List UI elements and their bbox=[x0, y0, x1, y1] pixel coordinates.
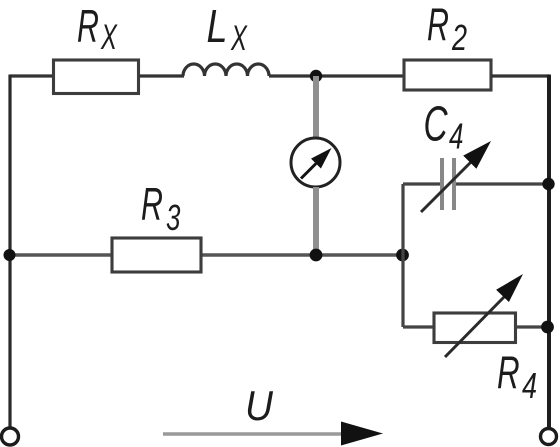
svg-text:R: R bbox=[77, 2, 99, 53]
meter U1 body bbox=[291, 138, 340, 187]
resistor R2 bbox=[404, 60, 491, 90]
arrow U bbox=[163, 422, 383, 446]
wire LX to node A bbox=[269, 74, 404, 77]
resistor R4 variable arrow bbox=[445, 274, 523, 357]
wire right vertical bbox=[547, 75, 551, 429]
wire meter upper bbox=[313, 76, 319, 138]
node B junction dot bbox=[396, 249, 409, 262]
node R4-right junction dot bbox=[541, 321, 554, 334]
label R3 bbox=[141, 180, 181, 238]
svg-text:2: 2 bbox=[451, 17, 467, 58]
terminal left bbox=[2, 428, 19, 445]
svg-text:L: L bbox=[207, 0, 228, 51]
svg-text:4: 4 bbox=[449, 116, 463, 156]
svg-text:X: X bbox=[230, 19, 247, 58]
svg-text:3: 3 bbox=[166, 198, 181, 238]
node left-middle junction dot bbox=[4, 249, 16, 261]
wire meter lower bbox=[313, 187, 319, 255]
terminal right bbox=[541, 429, 557, 445]
resistor R3 bbox=[112, 238, 201, 272]
meter needle arrowhead bbox=[311, 148, 332, 169]
wire right-branch vertical bbox=[401, 184, 404, 327]
wire R4 right lead bbox=[516, 325, 549, 328]
capacitor C4 variable arrow bbox=[421, 141, 491, 212]
wire left vertical bbox=[8, 75, 11, 429]
label C4 bbox=[424, 96, 464, 157]
svg-text:4: 4 bbox=[522, 365, 537, 406]
svg-text:C: C bbox=[424, 96, 449, 151]
label RX bbox=[77, 2, 118, 58]
capacitor C4 plates bbox=[442, 158, 454, 210]
svg-text:X: X bbox=[100, 19, 117, 58]
svg-text:R: R bbox=[427, 1, 449, 52]
svg-text:R: R bbox=[497, 348, 520, 399]
svg-text:U: U bbox=[245, 382, 274, 430]
inductor LX bbox=[183, 64, 269, 76]
svg-text:R: R bbox=[141, 180, 163, 231]
label R2 bbox=[427, 1, 467, 58]
wire C4 left lead bbox=[403, 182, 440, 185]
wire C4 right lead bbox=[456, 182, 549, 185]
node meter-bottom junction dot bbox=[310, 249, 323, 262]
wire middle horizontal bbox=[10, 253, 403, 256]
meter needle bbox=[301, 164, 316, 179]
wire top-left stub bbox=[10, 74, 53, 77]
label R4 bbox=[497, 348, 537, 406]
wire R4 left lead bbox=[403, 325, 434, 328]
resistor R4 bbox=[434, 313, 516, 343]
wire RX to LX bbox=[139, 74, 184, 77]
node C4-right junction dot bbox=[542, 178, 554, 190]
node A junction dot bbox=[310, 70, 322, 82]
label LX bbox=[207, 0, 248, 58]
resistor RX bbox=[54, 60, 139, 94]
wire R2 to top-right corner bbox=[491, 74, 549, 77]
